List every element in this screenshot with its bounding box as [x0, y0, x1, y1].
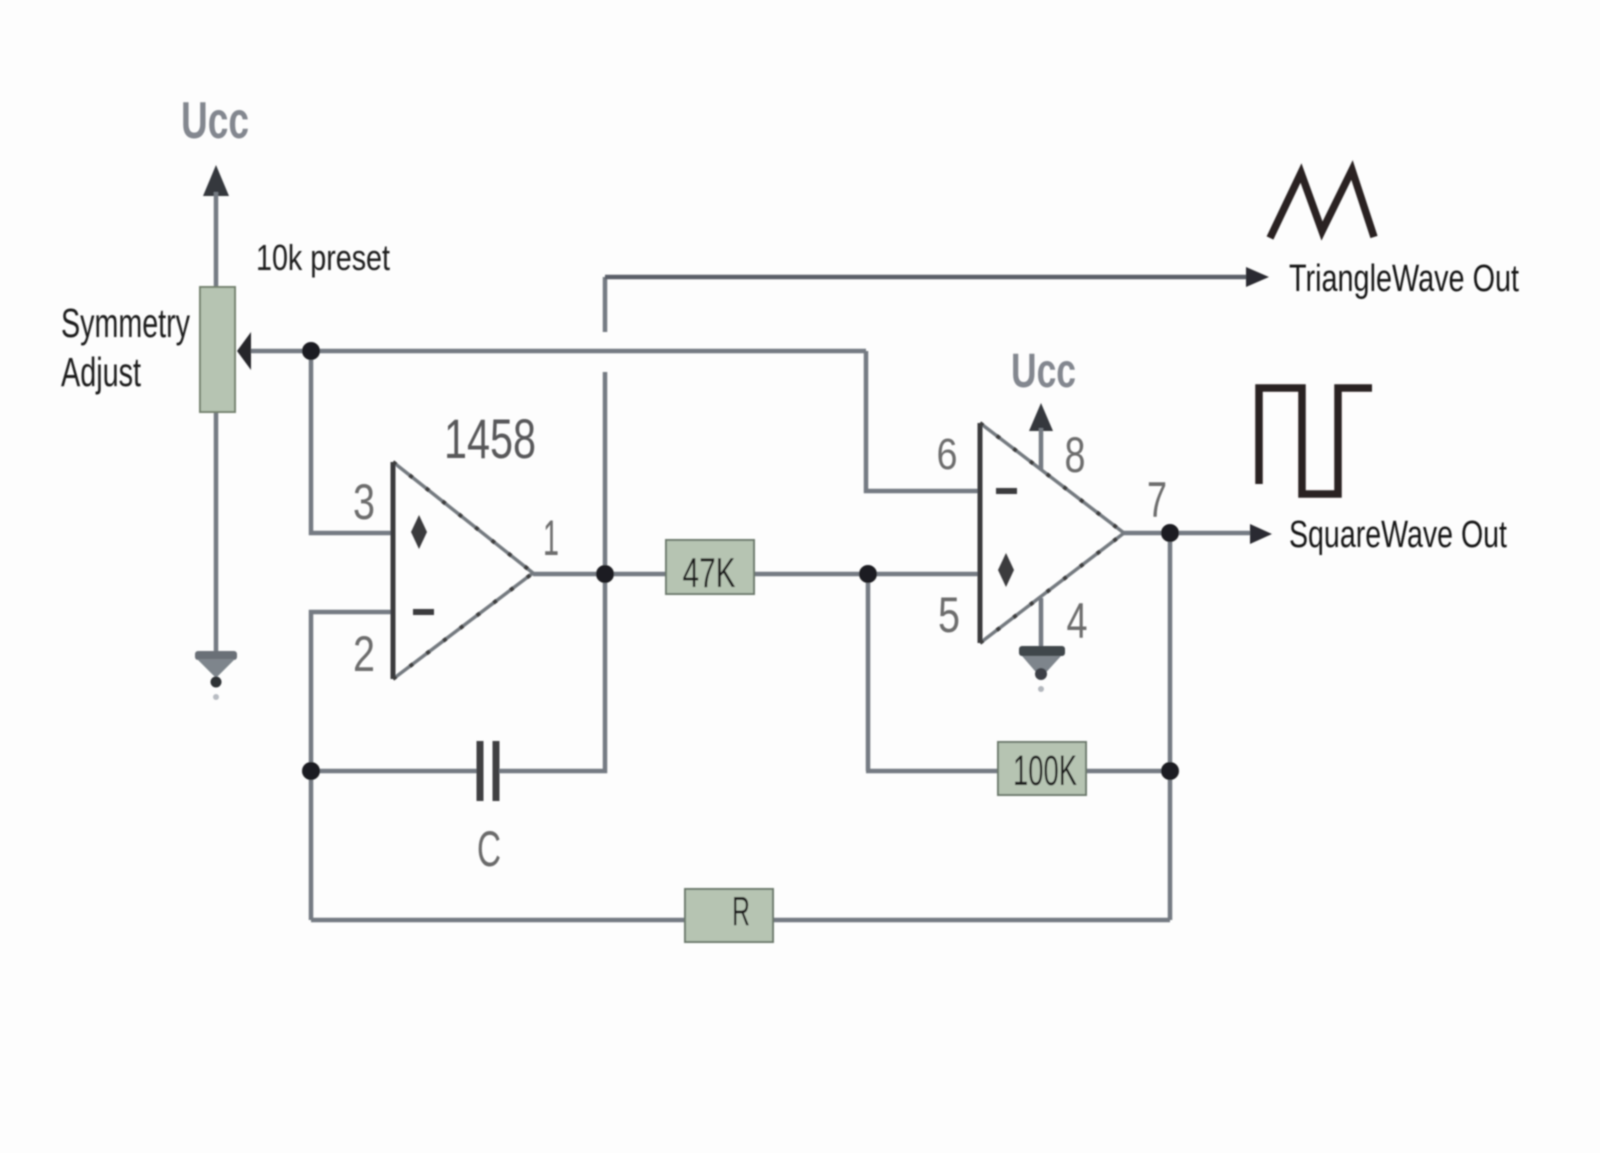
ground below potentiometer — [214, 412, 219, 655]
bottom wire through R — [311, 918, 1170, 923]
svg-text:47K: 47K — [683, 549, 736, 596]
Vcc arrow (pot top) — [203, 165, 229, 196]
Vcc arrow op-amp2 — [1029, 403, 1053, 431]
square wave icon — [1259, 388, 1372, 494]
wire pot wiper to node A — [246, 349, 866, 354]
junction node capacitor left — [302, 762, 320, 780]
svg-text:Ucc: Ucc — [1011, 345, 1076, 398]
svg-text:SquareWave Out: SquareWave Out — [1289, 514, 1507, 556]
wire pin 2 of U1A down to feedback node — [311, 612, 392, 920]
triangle out arrowhead — [1246, 267, 1269, 287]
op-amp U1A lower diagonal — [393, 573, 533, 679]
wire node A down to pin6 of U1B — [866, 351, 980, 491]
op-amp U1B plus input mark — [998, 553, 1014, 587]
potentiometer wiper arrow — [237, 332, 251, 370]
resistor 100K — [998, 742, 1086, 795]
op-amp U1B lower diagonal — [980, 533, 1124, 643]
svg-text:2: 2 — [353, 626, 375, 682]
svg-text:Symmetry: Symmetry — [61, 300, 190, 346]
svg-text:R: R — [732, 888, 750, 934]
svg-text:8: 8 — [1065, 427, 1086, 483]
wire capacitor right up to output node — [499, 574, 605, 771]
svg-text:7: 7 — [1147, 472, 1167, 528]
svg-text:6: 6 — [937, 430, 958, 479]
wire op-amp2 output down to 100K and R — [1168, 533, 1173, 920]
potentiometer 10k — [200, 287, 235, 412]
svg-text:4: 4 — [1067, 593, 1088, 649]
svg-text:3: 3 — [353, 474, 375, 530]
resistor R — [685, 889, 773, 942]
wire 100K feedback horizontal — [866, 769, 1170, 774]
op-amp U1B left edge — [978, 423, 983, 643]
op-amp U1B upper diagonal — [980, 423, 1124, 533]
wire junction down to pin 3 of U1A — [311, 351, 392, 533]
svg-text:Ucc: Ucc — [181, 92, 249, 150]
vertical wire output node up to triangle out (gap at crossing) — [603, 277, 608, 332]
wire op-amp1 output to pin5 of U1B — [533, 572, 980, 577]
junction node 100K right — [1161, 762, 1179, 780]
junction node op-amp1 output — [596, 565, 614, 583]
svg-text:1: 1 — [543, 510, 559, 566]
triangle wave icon — [1270, 170, 1374, 238]
junction node 47K / 100K branch — [859, 565, 877, 583]
svg-text:100K: 100K — [1013, 747, 1077, 795]
op-amp U1B minus input mark — [996, 488, 1017, 494]
junction node op-amp2 output — [1161, 524, 1179, 542]
svg-text:C: C — [477, 821, 501, 877]
op-amp U1A plus input mark — [411, 515, 427, 549]
svg-text:1458: 1458 — [444, 407, 536, 470]
svg-text:Adjust: Adjust — [61, 349, 141, 395]
resistor 47K — [666, 540, 754, 594]
squarewave out arrowhead — [1250, 524, 1272, 544]
wire capacitor left — [311, 769, 477, 774]
svg-text:10k preset: 10k preset — [256, 237, 390, 278]
op-amp U1A minus input mark — [413, 609, 434, 615]
svg-text:TriangleWave Out: TriangleWave Out — [1289, 258, 1519, 300]
junction node pot wiper — [302, 342, 320, 360]
ground pin 4 of U1B — [1039, 598, 1044, 650]
op-amp U1A left edge — [391, 462, 396, 679]
op-amp U1A upper diagonal — [393, 462, 533, 573]
triangle wave out wire — [605, 275, 1250, 280]
svg-text:5: 5 — [938, 587, 960, 643]
wire op-amp2 output to square out — [1124, 531, 1254, 536]
wire 100K branch down — [866, 574, 871, 771]
capacitor C plates — [477, 741, 484, 801]
